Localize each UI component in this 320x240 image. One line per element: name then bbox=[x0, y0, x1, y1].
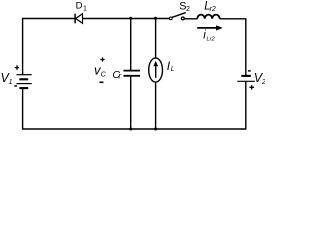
svg-text:D: D bbox=[76, 1, 83, 12]
current arrow i_Lr2 under inductor bbox=[197, 25, 223, 42]
capacitor Cr bbox=[112, 69, 140, 81]
svg-text:2: 2 bbox=[186, 6, 190, 13]
svg-text:C: C bbox=[101, 71, 107, 78]
wire: current source branch upper bbox=[155, 19, 157, 59]
wire: top rail left segment (top-left corner to diode cathode) bbox=[23, 19, 76, 75]
wire: V2 bottom to bottom-right corner bbox=[156, 81, 246, 129]
node: current source branch bottom junction bbox=[154, 128, 157, 131]
current source IL bbox=[149, 58, 175, 82]
wire: switch to inductor bbox=[184, 18, 197, 20]
wire: bottom rail middle segment bbox=[131, 128, 156, 130]
svg-text:r: r bbox=[118, 71, 121, 80]
wire: top rail middle segment (diode to switch) bbox=[83, 18, 170, 20]
svg-text:r2: r2 bbox=[210, 6, 216, 13]
wire: top rail right segment (inductor to top-right corner, down to V2) bbox=[220, 19, 246, 76]
battery V2 bbox=[237, 70, 266, 89]
inductor Lr2 bbox=[197, 1, 219, 19]
svg-text:Lr2: Lr2 bbox=[207, 37, 216, 43]
battery V1 bbox=[1, 65, 32, 88]
svg-text:1: 1 bbox=[83, 5, 87, 12]
label v_C with polarity signs bbox=[94, 57, 107, 83]
svg-text:1: 1 bbox=[9, 79, 13, 86]
diode D1 bbox=[75, 1, 87, 24]
svg-text:L: L bbox=[171, 66, 175, 73]
svg-text:2: 2 bbox=[261, 79, 265, 86]
wire: V1 bottom to bottom-left corner bbox=[23, 88, 131, 129]
wire: current source branch lower bbox=[155, 82, 157, 129]
switch S2 bbox=[169, 0, 190, 20]
node: junction of capacitor branch on top rail bbox=[129, 17, 132, 20]
wire: capacitor branch lower bbox=[130, 76, 132, 129]
wire: capacitor branch upper bbox=[130, 19, 132, 71]
node: junction of current-source branch on top rail bbox=[154, 17, 157, 20]
node: capacitor branch bottom junction bbox=[129, 128, 132, 131]
